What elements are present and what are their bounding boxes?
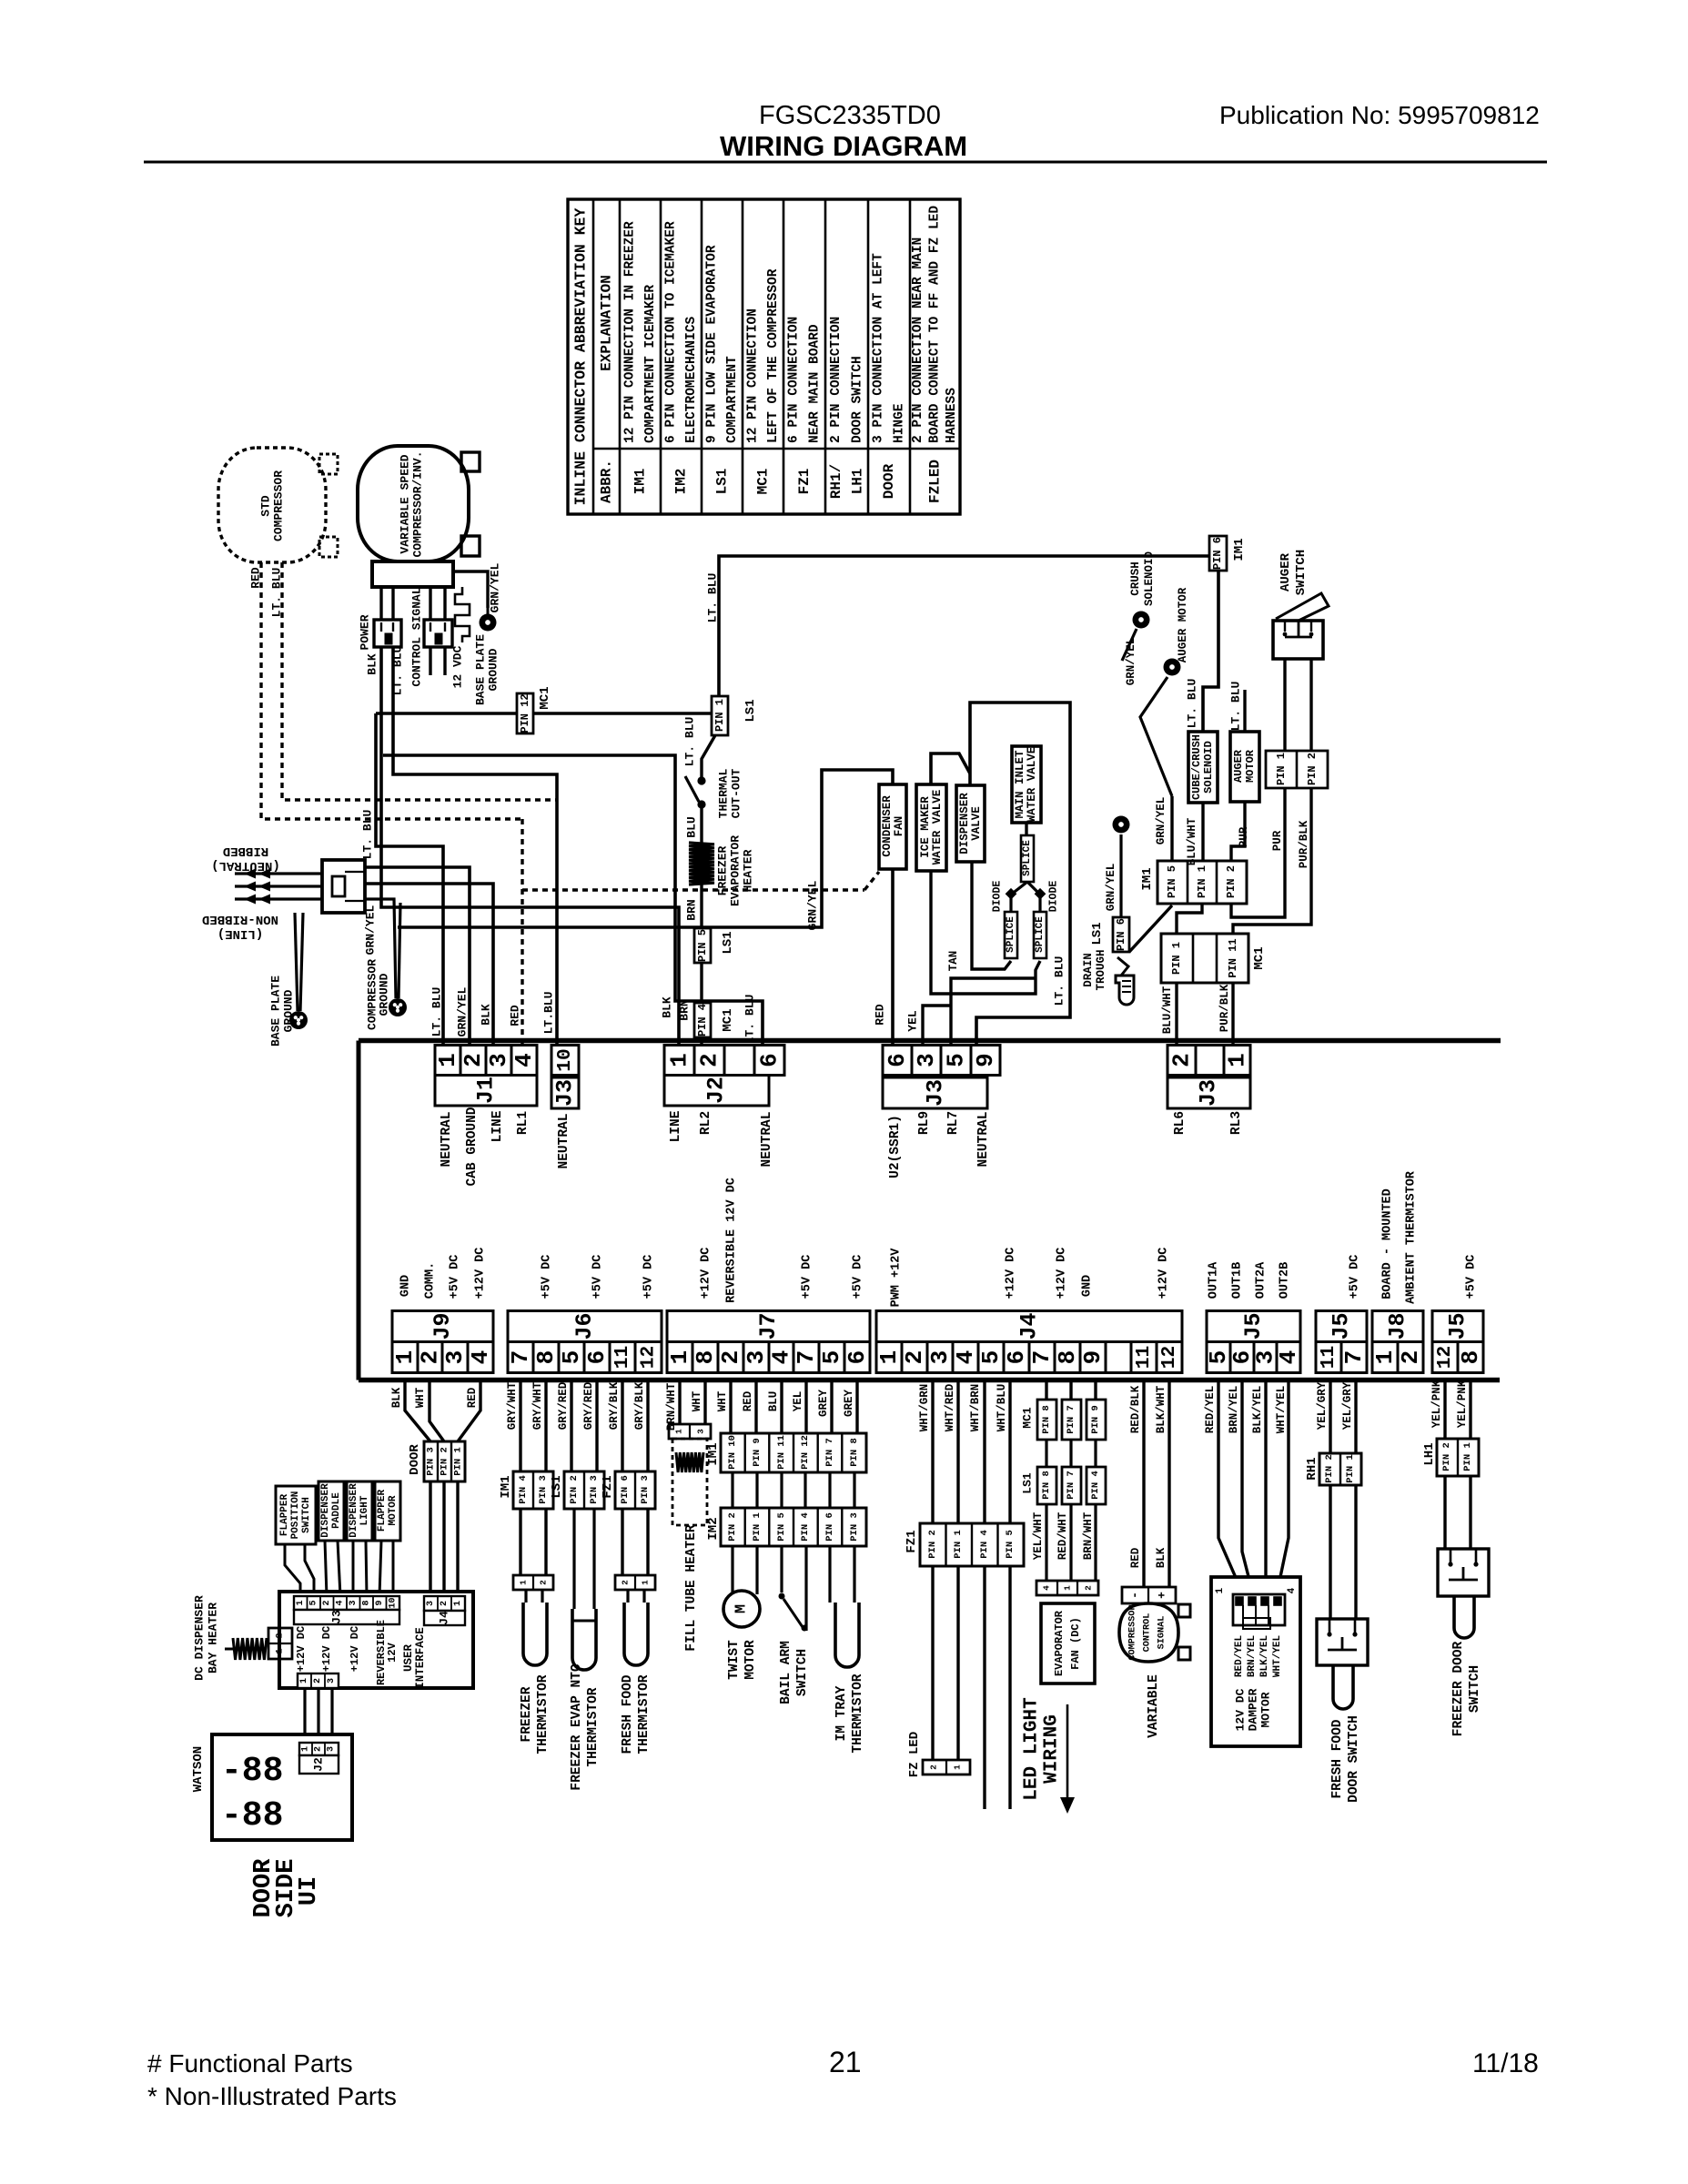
svg-text:COMM.: COMM. [424, 1262, 438, 1299]
damper motor connector graphic [1233, 1594, 1285, 1629]
base plate ground lug [289, 1011, 308, 1029]
svg-text:BRN: BRN [685, 899, 699, 920]
LED light wiring arrow [1060, 1704, 1075, 1814]
page header title WIRING DIAGRAM [720, 130, 967, 162]
svg-text:DISPENSER: DISPENSER [958, 793, 971, 854]
labels YEL/PNK [1430, 1380, 1469, 1428]
svg-text:2: 2 [1084, 1585, 1094, 1591]
svg-text:GRY/BLK: GRY/BLK [633, 1381, 646, 1430]
svg-text:RL2: RL2 [699, 1111, 713, 1135]
svg-text:GRY/RED: GRY/RED [582, 1381, 595, 1430]
wires auger switch to PIN1 PIN2 [1285, 659, 1311, 751]
label LT. BLU (power) [391, 646, 405, 696]
svg-text:PIN 5: PIN 5 [1166, 865, 1178, 898]
svg-text:PUR/BLK: PUR/BLK [1218, 984, 1231, 1032]
svg-text:PIN 12: PIN 12 [519, 693, 531, 733]
wire LT. BLU top line LS1 PIN1 to IM1 PIN6 [719, 556, 1216, 699]
freezer door switch [1438, 1549, 1489, 1596]
svg-text:PIN 7: PIN 7 [824, 1438, 835, 1467]
label IM1 (top right) [1232, 538, 1247, 561]
PIN 6 box IM1 (top) [1209, 536, 1227, 571]
svg-text:3: 3 [441, 1350, 469, 1365]
svg-text:WHT: WHT [691, 1390, 703, 1411]
svg-text:ICE MAKER: ICE MAKER [919, 796, 932, 858]
svg-text:5: 5 [818, 1350, 845, 1365]
labels J7 signals [700, 1178, 865, 1303]
connector J2 [664, 1046, 784, 1107]
svg-text:PIN 11: PIN 11 [776, 1435, 787, 1470]
svg-text:PIN 1: PIN 1 [453, 1447, 464, 1476]
labels J2 pins [669, 1110, 774, 1167]
svg-text:PIN 7: PIN 7 [1066, 1405, 1076, 1434]
main board top bus [359, 1038, 1501, 1044]
wire PIN1 to thermal cutout [702, 735, 715, 778]
label LT.BLU (J3-10) [542, 992, 556, 1035]
wires IM2 to twist motor [733, 1546, 757, 1594]
svg-text:J3: J3 [552, 1079, 579, 1107]
svg-text:J3: J3 [923, 1079, 949, 1107]
wire BRN heater to PIN5 [700, 885, 702, 928]
svg-text:GRY/BLK: GRY/BLK [608, 1381, 621, 1430]
svg-text:1: 1 [301, 1746, 311, 1752]
svg-text:+: + [1156, 1592, 1169, 1599]
svg-text:OUT1B: OUT1B [1231, 1262, 1245, 1299]
main board left edge [357, 1041, 361, 1380]
compressor blob terminals [1178, 1604, 1190, 1660]
label IM2 (icemaker) [706, 1517, 721, 1540]
svg-text:CUT-OUT: CUT-OUT [730, 768, 743, 818]
svg-text:RED: RED [742, 1390, 754, 1411]
POWER connector MC1 [374, 620, 401, 647]
svg-text:7: 7 [1028, 1350, 1056, 1365]
svg-text:YEL/PNK: YEL/PNK [1430, 1380, 1443, 1428]
FLAPPER MOTOR box [375, 1481, 400, 1541]
svg-text:DRAIN: DRAIN [1082, 953, 1095, 987]
variable speed compressor / inverter [358, 446, 469, 561]
svg-text:2: 2 [696, 1053, 723, 1067]
svg-text:RED: RED [466, 1387, 479, 1408]
svg-text:WHT/BLU: WHT/BLU [996, 1384, 1008, 1432]
svg-text:MOTOR: MOTOR [743, 1640, 758, 1680]
svg-text:J5: J5 [1329, 1312, 1355, 1340]
DC dispenser bay heater label [193, 1595, 220, 1681]
label FILL TUBE HEATER [684, 1524, 699, 1652]
svg-text:BLU: BLU [767, 1391, 780, 1412]
svg-text:4: 4 [1287, 1587, 1298, 1593]
svg-text:6: 6 [1003, 1350, 1030, 1365]
svg-text:THERMISTOR: THERMISTOR [637, 1674, 652, 1754]
svg-text:2: 2 [929, 1764, 939, 1770]
label GRN/YEL (ls1 pin6) [1105, 864, 1117, 912]
svg-text:BLK: BLK [390, 1387, 403, 1408]
svg-text:-88: -88 [221, 1796, 283, 1835]
label LT. BLU (cube) [1186, 679, 1199, 729]
UI bottom connector strip [298, 1673, 339, 1688]
svg-text:PIN 2: PIN 2 [1225, 865, 1238, 898]
svg-text:J7: J7 [755, 1312, 782, 1340]
labels J4 signals [890, 1248, 1171, 1308]
labels J5 outputs [1208, 1261, 1292, 1299]
svg-text:1: 1 [953, 1764, 963, 1770]
svg-text:4: 4 [510, 1053, 538, 1067]
svg-text:7: 7 [1340, 1350, 1368, 1365]
svg-text:IM1: IM1 [499, 1475, 513, 1498]
svg-text:PIN 8: PIN 8 [849, 1438, 860, 1467]
svg-text:BASE PLATE: BASE PLATE [474, 634, 488, 705]
label 12V DC DAMPER MOTOR [1234, 1688, 1273, 1731]
svg-text:PIN 2: PIN 2 [440, 1447, 450, 1476]
DC dispenser bay heater coil [225, 1638, 267, 1660]
wire splice to diodes [1011, 882, 1040, 912]
svg-text:BLK/YEL: BLK/YEL [1251, 1386, 1264, 1434]
svg-text:-88: -88 [221, 1752, 283, 1791]
svg-text:6 PIN CONNECTION: 6 PIN CONNECTION [787, 317, 802, 443]
label IM TRAY THERMISTOR [834, 1673, 865, 1753]
wire BLU/WHT MC1 to J3-2 [1175, 983, 1178, 1045]
svg-text:8: 8 [1457, 1350, 1484, 1365]
svg-text:PIN 2: PIN 2 [927, 1530, 938, 1559]
label FRESH FOOD THERMISTOR [621, 1674, 652, 1754]
svg-text:# Functional Parts: # Functional Parts [147, 2049, 353, 2078]
labels WHT/GRN WHT/RED WHT/BRN WHT/BLU [918, 1383, 1008, 1431]
connector J9 [391, 1311, 494, 1373]
svg-text:FZLED: FZLED [927, 460, 944, 503]
svg-text:12: 12 [1434, 1346, 1456, 1370]
svg-text:FREEZER: FREEZER [520, 1686, 534, 1742]
svg-text:CUBE/CRUSH: CUBE/CRUSH [1190, 734, 1203, 800]
svg-text:USER: USER [402, 1644, 415, 1673]
wires J4 to FZ1 connector [933, 1382, 1010, 1523]
svg-text:SOLENOID: SOLENOID [1143, 551, 1156, 606]
svg-text:EVAPORATOR: EVAPORATOR [1053, 1610, 1066, 1676]
wire plug to compressor ground [365, 899, 400, 998]
svg-text:PIN 6: PIN 6 [824, 1512, 835, 1542]
svg-text:YEL/WHT: YEL/WHT [1032, 1512, 1045, 1560]
fresh food thermistor bulb [624, 1603, 648, 1665]
svg-text:BLU: BLU [685, 816, 699, 837]
svg-text:9: 9 [375, 1600, 385, 1605]
FZ LED connector [923, 1760, 970, 1774]
svg-text:LH1: LH1 [849, 469, 865, 495]
svg-text:BAIL ARM: BAIL ARM [779, 1641, 793, 1704]
svg-text:WIRING: WIRING [1042, 1714, 1063, 1784]
label RED (J9) [466, 1387, 479, 1408]
svg-text:MC1: MC1 [755, 469, 772, 495]
label BLU/WHT (J3) [1161, 986, 1174, 1034]
svg-text:2: 2 [276, 1633, 286, 1638]
svg-text:LT.BLU: LT.BLU [542, 992, 556, 1035]
connector J3 (6-3-5-9) [883, 1046, 1000, 1109]
svg-text:FZ1: FZ1 [905, 1530, 919, 1552]
svg-text:DOOR SWITCH: DOOR SWITCH [850, 356, 864, 443]
svg-text:J2: J2 [312, 1757, 326, 1772]
svg-text:PIN 4: PIN 4 [518, 1475, 529, 1504]
label BOARD-MOUNTED AMBIENT THERMISTOR [1381, 1170, 1419, 1304]
svg-text:9: 9 [1079, 1350, 1107, 1365]
wire dispenser valve to splice left [972, 862, 1011, 969]
inverter box [372, 561, 453, 587]
svg-text:GROUND: GROUND [282, 989, 296, 1032]
wire plug to J1-3 BLK [365, 884, 493, 1045]
svg-text:SOLENOID: SOLENOID [1202, 741, 1215, 794]
base plate ground terminal (inverter) [480, 608, 497, 632]
svg-text:HARNESS: HARNESS [945, 388, 959, 443]
svg-text:YEL: YEL [906, 1010, 920, 1032]
svg-text:NEUTRAL: NEUTRAL [440, 1112, 454, 1168]
IM1 icemaker inline connector [721, 1433, 866, 1472]
svg-text:SWITCH: SWITCH [301, 1497, 312, 1533]
svg-text:1: 1 [299, 1678, 309, 1683]
svg-text:2: 2 [440, 1601, 450, 1606]
svg-text:SPLICE: SPLICE [1035, 916, 1046, 953]
label BAIL ARM SWITCH [779, 1641, 810, 1704]
svg-text:WHT/BRN: WHT/BRN [969, 1384, 982, 1432]
svg-text:6: 6 [844, 1350, 871, 1365]
svg-text:+12V DC: +12V DC [474, 1248, 488, 1299]
svg-text:RED/WHT: RED/WHT [1056, 1512, 1069, 1560]
svg-text:LED LIGHT: LED LIGHT [1022, 1697, 1043, 1800]
svg-text:1: 1 [519, 1580, 529, 1585]
svg-text:J5: J5 [1240, 1312, 1267, 1340]
connector J8 [1371, 1311, 1424, 1373]
fresh food door switch [1317, 1619, 1368, 1665]
wires MC1 to LS1 evap [1046, 1440, 1096, 1467]
svg-text:+12V DC: +12V DC [700, 1248, 713, 1299]
labels YEL/WHT RED/WHT BRN/WHT [1032, 1512, 1095, 1560]
seven segment display lower [221, 1796, 283, 1835]
PIN 1 / PIN 2 boxes (auger) [1266, 751, 1328, 788]
wires UI to Watson board [305, 1688, 332, 1743]
svg-text:OUT2A: OUT2A [1255, 1261, 1269, 1299]
svg-text:4: 4 [952, 1350, 979, 1365]
12V DC damper motor box [1211, 1577, 1300, 1746]
compressor control signal blob [1119, 1603, 1178, 1662]
wires BRN/WHT WHT J7 to fill tube heater [680, 1382, 705, 1424]
svg-text:RED/YEL: RED/YEL [1234, 1635, 1245, 1678]
PIN 4 box MC1 [694, 1003, 711, 1037]
LH1 inline connector [1437, 1439, 1479, 1476]
wires LS1 to evap fan plug [1046, 1504, 1096, 1581]
FZ1 inline connector [920, 1523, 1024, 1566]
svg-text:RED: RED [874, 1004, 887, 1026]
UI J4 label box [424, 1611, 465, 1625]
wire inverter to POWER connector [381, 587, 393, 620]
svg-text:(LINE): (LINE) [217, 926, 263, 941]
svg-text:ELECTROMECHANICS: ELECTROMECHANICS [684, 316, 699, 443]
svg-text:10: 10 [388, 1597, 398, 1608]
wires FZ1 led light runs [985, 1566, 1010, 1809]
svg-text:2: 2 [417, 1350, 444, 1365]
label LT. BLU (J1-1) [430, 987, 444, 1037]
wires dispenser light to UI J3 [353, 1541, 367, 1596]
svg-text:GRN/YEL: GRN/YEL [1125, 638, 1137, 686]
svg-text:J6: J6 [571, 1312, 598, 1340]
svg-text:GROUND: GROUND [487, 648, 500, 691]
svg-text:DAMPER: DAMPER [1247, 1688, 1260, 1731]
svg-text:GRY/WHT: GRY/WHT [506, 1381, 519, 1430]
drain trough symbol [1116, 957, 1134, 1005]
svg-text:2: 2 [1397, 1350, 1424, 1365]
svg-text:BLK/YEL: BLK/YEL [1259, 1635, 1270, 1678]
label LH1 [1422, 1442, 1437, 1465]
wire PIN5 to PIN4 [700, 963, 702, 1003]
PIN 1 box LS1 [712, 696, 728, 735]
wire BLK J9-1 to DOOR PIN3 [405, 1382, 430, 1441]
connector J1 [434, 1046, 538, 1107]
label BASE PLATE GROUND (plug) [269, 976, 296, 1046]
bail arm switch [779, 1593, 808, 1632]
labels J9 signals [399, 1248, 488, 1299]
label CONTROL SIGNAL [410, 587, 424, 686]
svg-text:MAIN INLET: MAIN INLET [1014, 750, 1026, 819]
svg-text:IM1: IM1 [706, 1442, 721, 1465]
IM2 icemaker inline connector [721, 1508, 866, 1546]
svg-text:J4: J4 [1016, 1312, 1043, 1340]
freezer evap thermistor bulb [572, 1609, 596, 1670]
svg-text:IM2: IM2 [706, 1517, 721, 1540]
svg-text:BRN/YEL: BRN/YEL [1228, 1386, 1240, 1434]
svg-text:RED/BLK: RED/BLK [1129, 1385, 1142, 1433]
svg-text:Publication No: 5995709812: Publication No: 5995709812 [1219, 101, 1540, 129]
wires IM2 to bail arm switch [782, 1546, 806, 1631]
wire IM1 PIN2 to auger PIN1 [1231, 788, 1285, 917]
svg-text:PIN 1: PIN 1 [1170, 942, 1183, 975]
svg-text:GND: GND [399, 1275, 413, 1297]
svg-text:TWIST: TWIST [727, 1640, 742, 1680]
freezer door switch bulb [1454, 1596, 1474, 1638]
label PUR/BLK (auger) [1298, 820, 1310, 868]
svg-text:GRY/WHT: GRY/WHT [531, 1381, 544, 1430]
svg-text:LS1: LS1 [714, 469, 731, 495]
svg-text:IM1: IM1 [1232, 538, 1247, 561]
labels J3 pins (21) [1173, 1111, 1244, 1135]
Watson J2 label box [299, 1755, 339, 1774]
label PUR (im1) [1238, 826, 1250, 847]
wire TAN splice right to J3-5 [951, 961, 1040, 1045]
UI J4 connector strip [424, 1596, 465, 1611]
power cord lines with arrows [235, 869, 322, 905]
connector J4 [875, 1311, 1182, 1373]
wire BLU to heater [700, 804, 702, 843]
svg-text:2 PIN CONNECTION: 2 PIN CONNECTION [829, 317, 844, 443]
wire cube/crush BLU/WHT to IM1 PIN1 [1201, 803, 1204, 861]
svg-text:1: 1 [641, 1580, 651, 1585]
twist motor [723, 1591, 760, 1627]
svg-text:11: 11 [1133, 1346, 1155, 1370]
damper wire labels inside [1234, 1635, 1283, 1678]
svg-text:2 PIN CONNECTION NEAR MAIN: 2 PIN CONNECTION NEAR MAIN [911, 238, 925, 443]
wires IM1 to IM2 [733, 1472, 854, 1508]
label +5V DC (J5 LH1) [1465, 1255, 1479, 1299]
ground terminal GRN/YEL LS1 PIN6 [1113, 816, 1130, 918]
svg-text:PIN 1: PIN 1 [953, 1530, 964, 1559]
svg-text:12 PIN CONNECTION: 12 PIN CONNECTION [745, 308, 760, 443]
wire inverter to CONTROL SIGNAL connector [430, 587, 445, 620]
svg-text:PIN 1: PIN 1 [752, 1512, 763, 1542]
svg-text:LT. BLU: LT. BLU [361, 810, 375, 860]
svg-text:+5V DC: +5V DC [449, 1255, 462, 1299]
label AUGER SWITCH [1279, 550, 1309, 595]
freezer thermistor bulb [523, 1603, 547, 1665]
svg-text:LT. BLU: LT. BLU [1186, 679, 1199, 729]
svg-text:GRN/YEL: GRN/YEL [364, 905, 378, 955]
svg-text:PIN 6: PIN 6 [620, 1475, 631, 1504]
FZ1 thermistor inline connector [615, 1471, 655, 1509]
wire MC1 PIN 12 line [376, 713, 713, 1045]
svg-text:LINE: LINE [490, 1110, 505, 1142]
svg-text:UI: UI [296, 1876, 323, 1906]
wires plug to freezer thermistor [526, 1590, 542, 1603]
label FREEZER EVAP NTC THERMISTOR [570, 1663, 601, 1791]
svg-text:+5V DC: +5V DC [591, 1255, 605, 1299]
svg-text:+12V DC: +12V DC [1005, 1248, 1018, 1299]
svg-text:MC1: MC1 [1021, 1407, 1035, 1429]
fill tube heater (dashed) [672, 1439, 707, 1525]
svg-text:1: 1 [276, 1648, 286, 1653]
wires dispenser paddle to UI J3 [325, 1541, 340, 1596]
svg-text:RL1: RL1 [516, 1111, 531, 1135]
Watson J2 connector strip [299, 1743, 339, 1755]
wires plug to fresh food thermistor [628, 1590, 644, 1603]
svg-text:YEL/GRY: YEL/GRY [1341, 1381, 1354, 1430]
label MC1 (evap) [1021, 1407, 1035, 1429]
PIN 5 box LS1 [694, 928, 711, 963]
svg-text:RED: RED [249, 567, 263, 589]
svg-text:FRESH FOOD: FRESH FOOD [621, 1674, 635, 1754]
label DIODE left [992, 881, 1004, 913]
label BLK [366, 653, 379, 675]
label GRN/YEL (im1 pin5) [1155, 797, 1167, 845]
svg-text:2: 2 [539, 1580, 549, 1585]
wire LT. BLU routed loop to J3-9 [970, 703, 1070, 1045]
svg-text:1: 1 [453, 1601, 463, 1606]
label TAN [947, 951, 960, 972]
svg-text:BLK: BLK [480, 1004, 493, 1026]
wire auger PIN2 PUR/BLK to MC1 PIN11 [1233, 788, 1311, 934]
svg-text:1: 1 [1215, 1587, 1226, 1593]
label YEL [906, 1010, 920, 1032]
label LS1 (pin6) [1090, 922, 1105, 945]
svg-text:WHT/YEL: WHT/YEL [1275, 1386, 1288, 1434]
label IM1 (thermistor) [499, 1475, 513, 1498]
damper connector corner digits [1215, 1587, 1298, 1593]
svg-text:1: 1 [674, 1429, 684, 1434]
label NON-RIBBED (LINE) rotated [202, 912, 278, 941]
Watson display board box [212, 1734, 352, 1840]
wire LT. BLU long line to J2-6 [383, 755, 763, 1045]
DISPENSER PADDLE box [318, 1481, 344, 1541]
MC1 inline connector (pin1 pin11) [1161, 934, 1248, 983]
label BASE PLATE GROUND [474, 634, 500, 705]
svg-text:+5V DC: +5V DC [1349, 1255, 1362, 1299]
footer page number [829, 2046, 862, 2078]
svg-text:WHT: WHT [716, 1390, 729, 1411]
svg-text:FREEZER: FREEZER [716, 845, 730, 895]
svg-text:SWITCH: SWITCH [1294, 550, 1309, 595]
CONDENSER FAN box [879, 784, 906, 869]
svg-text:PIN 1: PIN 1 [1196, 865, 1208, 898]
svg-text:LEFT OF THE COMPRESSOR: LEFT OF THE COMPRESSOR [766, 268, 781, 443]
svg-text:RED: RED [1129, 1547, 1142, 1568]
svg-text:DIODE: DIODE [992, 881, 1004, 913]
wires J5 to LH1 [1445, 1382, 1471, 1439]
svg-text:MOTOR: MOTOR [1259, 1692, 1273, 1727]
svg-text:TROUGH: TROUGH [1095, 949, 1107, 990]
connector J5 (LH1) [1432, 1311, 1484, 1373]
svg-text:BASE PLATE: BASE PLATE [269, 976, 283, 1046]
svg-text:PIN 5: PIN 5 [1005, 1530, 1016, 1559]
label LS1 (evap) [1021, 1472, 1035, 1494]
